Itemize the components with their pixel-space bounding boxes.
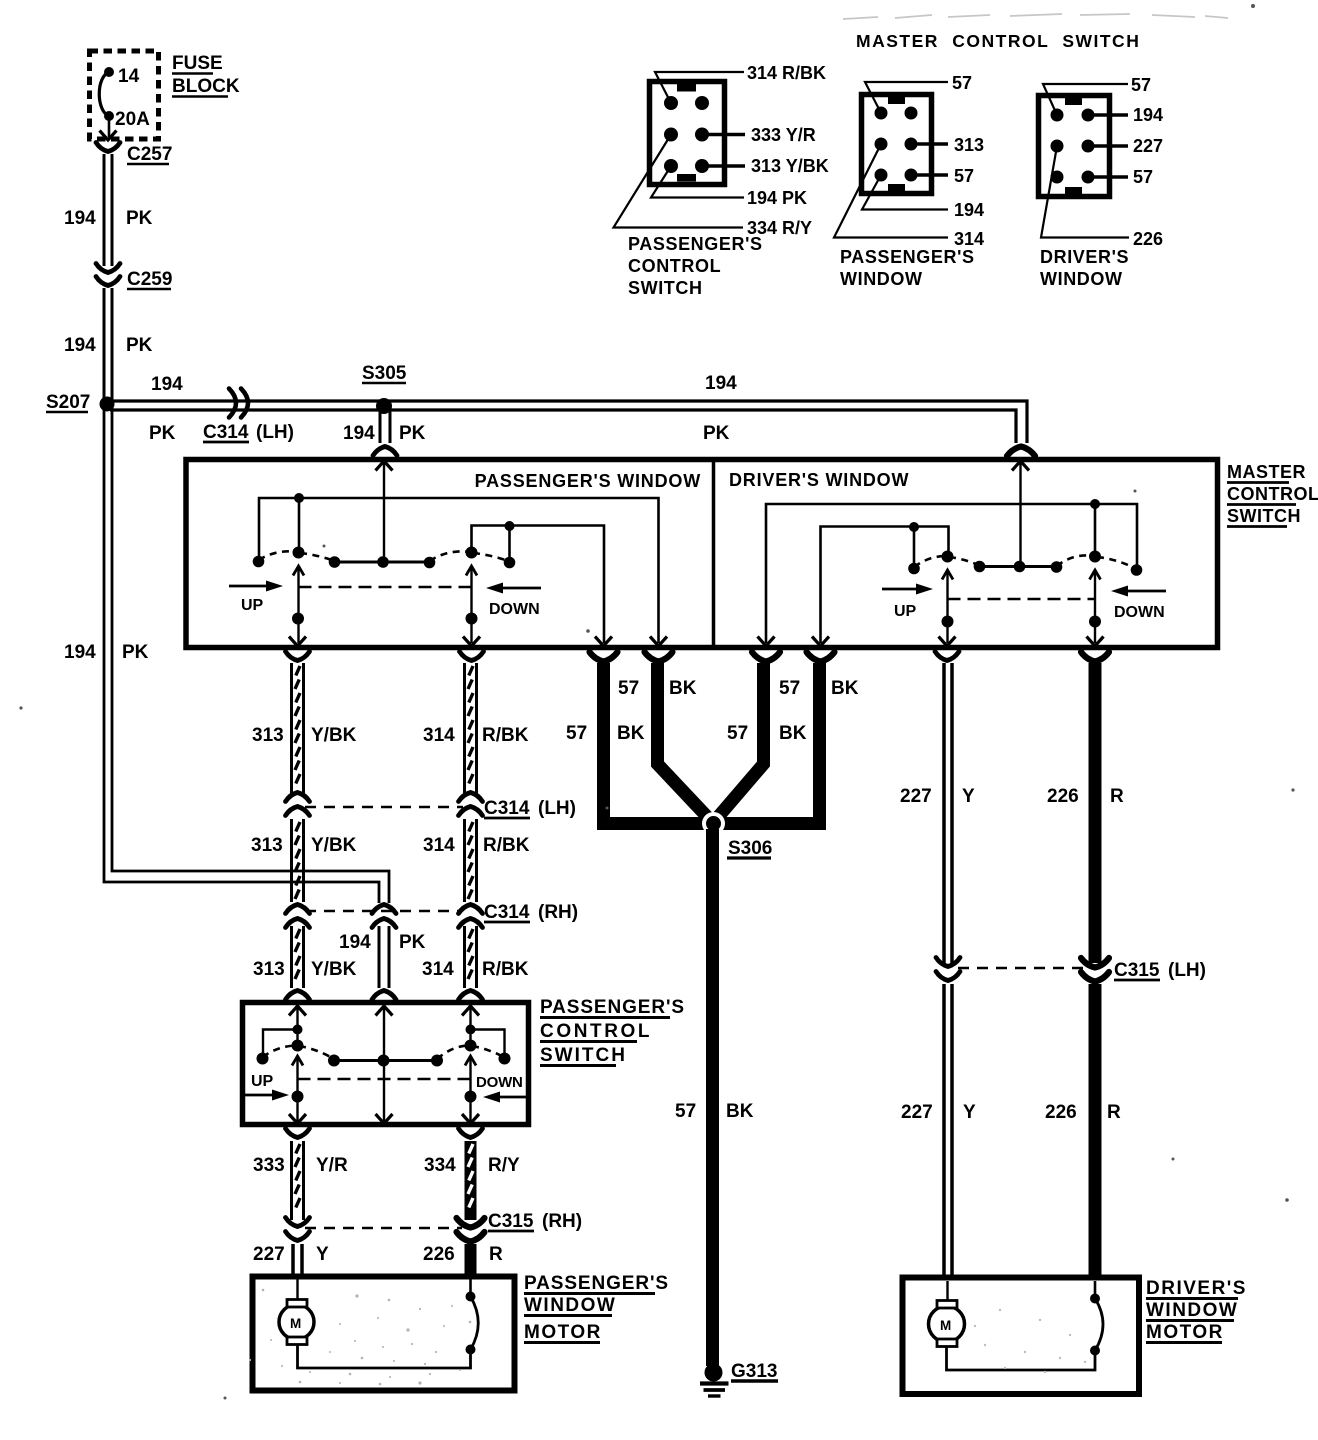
svg-text:PK: PK (122, 642, 149, 663)
svg-text:DOWN: DOWN (489, 601, 540, 618)
label C314 (RH) (484, 902, 578, 923)
motor M2 (929, 1301, 965, 1347)
label 194 PK at S305 branch (343, 423, 426, 444)
label 194 PK lower left (64, 642, 149, 663)
wire 194 PK segment to switch (379, 926, 389, 988)
label DRIVER'S WINDOW MOTOR (1146, 1278, 1247, 1343)
wire 314 R/BK segment 3 (465, 926, 477, 988)
svg-text:314 R/BK: 314 R/BK (747, 63, 826, 83)
label 194 PK above switch (339, 932, 426, 953)
svg-text:226: 226 (1047, 786, 1079, 807)
label 57 BK outer left (566, 723, 645, 744)
entry arrows inside control switch (289, 1006, 479, 1016)
svg-text:314: 314 (954, 229, 984, 249)
wire 226 R right segment 1 (1089, 663, 1102, 963)
fuse block (90, 51, 159, 139)
svg-text:PASSENGER'S: PASSENGER'S (628, 234, 763, 254)
label 227 Y left (253, 1244, 329, 1265)
wire 314 R/BK segment 1 (465, 663, 477, 795)
motor M1 feed wire (296, 1279, 298, 1300)
svg-text:M: M (940, 1318, 951, 1333)
label 333 Y/R (253, 1155, 348, 1176)
wire 57 BK thick inner right (712, 663, 764, 824)
svg-text:14: 14 (118, 66, 140, 87)
connector chevron into master switch right feed (1007, 447, 1035, 457)
svg-text:194 PK: 194 PK (747, 188, 807, 208)
connector C315 RH dashed line (305, 1227, 462, 1229)
svg-text:R/BK: R/BK (482, 725, 529, 746)
label 194 PK right run (703, 373, 737, 444)
svg-text:S305: S305 (362, 363, 407, 384)
svg-text:C257: C257 (127, 144, 172, 165)
svg-text:194: 194 (954, 200, 984, 220)
svg-text:BK: BK (669, 678, 697, 699)
leader pin 57 C mid (1092, 167, 1153, 187)
connector C259 (96, 264, 172, 291)
svg-text:226: 226 (423, 1244, 455, 1265)
passenger window motor box M1 (253, 1277, 515, 1391)
label PK below S207 run (149, 423, 176, 444)
UP actuation arrow right half (882, 584, 933, 621)
svg-text:SWITCH: SWITCH (1227, 506, 1301, 526)
connector C314 LH chevrons on 314 (459, 793, 483, 816)
leader pin 313 Y/BK (706, 156, 829, 176)
leader pin 57 B mid (915, 166, 974, 186)
up plunger control switch (292, 1056, 304, 1124)
leader pin 57 C top (1043, 75, 1151, 115)
label PASSENGER'S CONTROL SWITCH (540, 997, 685, 1066)
svg-text:PASSENGER'S: PASSENGER'S (524, 1273, 669, 1294)
svg-text:PK: PK (126, 335, 153, 356)
svg-text:PK: PK (703, 423, 730, 444)
wire 313 Y/BK segment 1 (292, 663, 304, 795)
leader pin 57 B top (865, 73, 972, 113)
center contact bar control switch (334, 1055, 443, 1067)
label 57 BK inner left (618, 678, 697, 699)
connector C314 LH inline symbol (229, 389, 248, 418)
fuse label 14 (118, 66, 140, 87)
wire 334 R/Y (465, 1141, 477, 1220)
svg-text:BK: BK (617, 723, 645, 744)
wire 333 Y/R (292, 1141, 304, 1220)
center contact bar left half (335, 556, 436, 568)
label 226 R upper (1047, 786, 1124, 807)
leader pin 194 B (862, 175, 984, 220)
leader pin 226 C (1041, 146, 1163, 249)
svg-text:194: 194 (1133, 105, 1163, 125)
caption PASSENGER'S WINDOW view (840, 247, 975, 289)
svg-text:PASSENGER'S WINDOW: PASSENGER'S WINDOW (475, 471, 701, 491)
label C314 (LH) (484, 798, 576, 819)
label row 313 Y/BK 314 R/BK third (253, 959, 529, 980)
wire feed to center contacts right half (1019, 462, 1021, 562)
label C315 (LH) (1114, 960, 1206, 981)
label C315 (RH) (488, 1211, 582, 1232)
ground G313 (700, 1361, 778, 1396)
exit chevrons below control switch (286, 1129, 483, 1138)
svg-text:R: R (1107, 1102, 1121, 1123)
fuse label 20A (115, 109, 150, 130)
wire 227 Y right segment 2 (944, 984, 952, 1276)
svg-text:194: 194 (64, 642, 96, 663)
svg-text:227: 227 (253, 1244, 285, 1265)
caption PASSENGER'S CONTROL SWITCH view (628, 234, 763, 298)
svg-text:313: 313 (252, 725, 284, 746)
svg-text:57: 57 (727, 723, 748, 744)
svg-text:WINDOW: WINDOW (1146, 1300, 1238, 1321)
svg-text:(RH): (RH) (538, 902, 578, 923)
entry chevrons above passenger control switch (286, 991, 483, 1000)
mechanical link dashed left half (299, 586, 472, 589)
FUSE BLOCK label (172, 53, 240, 97)
svg-text:226: 226 (1045, 1102, 1077, 1123)
label C314 (LH) inline (203, 422, 294, 443)
connector C315 LH dashed line (958, 967, 1086, 969)
connector C314 LH chevrons on 313 (286, 793, 310, 816)
svg-text:MASTER CONTROL SWITCH: MASTER CONTROL SWITCH (856, 31, 1140, 51)
leader pin 194 C (1092, 105, 1163, 125)
leader pin 314 B (834, 144, 984, 249)
terminal chevrons below master switch (286, 652, 1110, 662)
svg-text:BK: BK (779, 723, 807, 744)
svg-text:333: 333 (253, 1155, 285, 1176)
down plunger right half (1089, 570, 1101, 643)
svg-text:Y: Y (962, 786, 975, 807)
label DRIVER'S WINDOW (729, 470, 909, 490)
node rail1 left half (259, 493, 659, 643)
svg-text:Y: Y (316, 1244, 329, 1265)
svg-text:R/Y: R/Y (488, 1155, 520, 1176)
title MASTER CONTROL SWITCH (856, 31, 1140, 51)
wire 313 Y/BK segment 3 (292, 926, 304, 988)
arrow feed entry right half (1012, 461, 1029, 471)
mechanical link dashed control switch (298, 1078, 471, 1081)
wire 194 PK S207 to S305 to master switch (110, 401, 1027, 443)
wire 194 PK C259 to S207 (104, 288, 112, 400)
DOWN actuation arrow left half (486, 583, 541, 619)
svg-text:334: 334 (424, 1155, 456, 1176)
svg-text:194: 194 (343, 423, 375, 444)
wire 226 R left segment (465, 1244, 477, 1275)
svg-text:DOWN: DOWN (1114, 604, 1165, 621)
svg-text:20A: 20A (115, 109, 150, 130)
caption DRIVER'S WINDOW view (1040, 247, 1129, 289)
svg-text:DRIVER'S: DRIVER'S (1146, 1278, 1247, 1299)
master control switch box U1 (186, 460, 1218, 648)
label MASTER CONTROL SWITCH right side (1227, 462, 1318, 527)
svg-text:57: 57 (954, 166, 974, 186)
label 194 PK upper (64, 208, 153, 229)
svg-text:R: R (489, 1244, 503, 1265)
svg-text:M: M (290, 1316, 301, 1331)
svg-text:57: 57 (779, 678, 800, 699)
svg-text:G313: G313 (731, 1361, 777, 1382)
svg-text:BLOCK: BLOCK (172, 76, 240, 97)
svg-text:DRIVER'S: DRIVER'S (1040, 247, 1129, 267)
svg-text:SWITCH: SWITCH (540, 1045, 627, 1066)
svg-text:SWITCH: SWITCH (628, 278, 703, 298)
svg-text:313 Y/BK: 313 Y/BK (751, 156, 829, 176)
splice S306 (702, 812, 772, 859)
up contact set right half (908, 551, 979, 575)
splice S305 (362, 363, 407, 414)
wire 194 PK fuse to C259 (104, 154, 112, 266)
svg-text:(LH): (LH) (538, 798, 576, 819)
svg-text:194: 194 (64, 208, 96, 229)
svg-text:S306: S306 (728, 838, 772, 859)
svg-text:Y/BK: Y/BK (311, 835, 357, 856)
down contact set left half (430, 547, 516, 569)
svg-text:MOTOR: MOTOR (524, 1322, 602, 1343)
label 334 R/Y (424, 1155, 520, 1176)
svg-text:227: 227 (901, 1102, 933, 1123)
down plunger left half (466, 566, 478, 643)
wire 57 BK thick inner left (658, 663, 715, 824)
connector view master passenger window shell (862, 95, 932, 194)
arrow out of fuse block (100, 131, 117, 141)
svg-text:R/BK: R/BK (483, 835, 530, 856)
down plunger control switch (465, 1056, 477, 1124)
wire 194 PK S207 down and right to C314 RH (104, 408, 389, 903)
svg-text:BK: BK (726, 1101, 754, 1122)
label row 313 Y/BK 314 R/BK first (252, 725, 529, 746)
connector C315 RH chevrons on 333 (286, 1218, 310, 1241)
svg-text:CONTROL: CONTROL (628, 256, 721, 276)
svg-text:Y: Y (963, 1102, 976, 1123)
UP actuation arrow control switch (242, 1073, 289, 1101)
motor M1 (279, 1300, 314, 1345)
svg-text:314: 314 (423, 725, 455, 746)
label 227 Y upper (900, 786, 975, 807)
svg-text:313: 313 (251, 835, 283, 856)
DOWN actuation arrow control switch (476, 1074, 528, 1103)
wire 57 BK to ground (706, 829, 719, 1366)
passenger control switch box S2 (243, 1003, 529, 1125)
svg-text:FUSE: FUSE (172, 53, 223, 74)
wire feed to center contacts left half (383, 462, 385, 558)
svg-text:194: 194 (339, 932, 371, 953)
svg-text:Y/R: Y/R (316, 1155, 348, 1176)
wire 314 R/BK segment 2 (465, 819, 477, 902)
svg-text:PK: PK (126, 208, 153, 229)
svg-text:226: 226 (1133, 229, 1163, 249)
label 57 BK inner right (779, 678, 859, 699)
label 227 Y lower (901, 1102, 976, 1123)
svg-text:227: 227 (900, 786, 932, 807)
svg-text:PK: PK (399, 932, 426, 953)
svg-text:BK: BK (831, 678, 859, 699)
svg-text:57: 57 (1133, 167, 1153, 187)
node rail2 right half (821, 522, 949, 643)
center contact bar right half (974, 561, 1063, 573)
connector view C pins (1051, 109, 1095, 184)
connector C314 LH dashed line (305, 806, 463, 808)
svg-text:DRIVER'S WINDOW: DRIVER'S WINDOW (729, 470, 909, 490)
svg-text:57: 57 (566, 723, 587, 744)
label row 313 Y/BK 314 R/BK second (251, 835, 530, 856)
fuse 14 20A element (99, 67, 114, 137)
svg-text:CONTROL: CONTROL (1227, 484, 1318, 504)
node rail2 left half (472, 521, 605, 643)
svg-text:PK: PK (399, 423, 426, 444)
svg-text:DOWN: DOWN (476, 1074, 523, 1091)
connector C314 RH chevrons on 313 (286, 905, 310, 928)
connector view B pins (875, 107, 918, 182)
connector C257 (96, 143, 172, 166)
scan smudge above title (843, 14, 1228, 19)
leader pin 334 R/Y (614, 135, 813, 239)
wire 227 Y left segment (293, 1244, 302, 1275)
svg-text:194: 194 (64, 335, 96, 356)
arrow feed entry left half (376, 461, 393, 471)
leader pin 333 Y/R (706, 125, 816, 145)
label 194 PK mid (64, 335, 153, 356)
mechanical link dashed right half (948, 598, 1096, 601)
connector C315 LH chevrons on 226 (1081, 958, 1109, 982)
svg-text:PASSENGER'S: PASSENGER'S (540, 997, 685, 1018)
svg-text:MASTER: MASTER (1227, 462, 1306, 482)
wire 57 BK thick outer right (713, 663, 820, 824)
svg-text:UP: UP (251, 1073, 274, 1090)
up contact set control switch (257, 1040, 341, 1067)
svg-text:PASSENGER'S: PASSENGER'S (840, 247, 975, 267)
leader pin 313 B (915, 135, 984, 155)
connector view passenger control switch shell (650, 82, 725, 185)
svg-text:333 Y/R: 333 Y/R (751, 125, 816, 145)
down contact set right half (1057, 551, 1143, 576)
svg-text:C315: C315 (488, 1211, 534, 1232)
svg-text:57: 57 (1131, 75, 1151, 95)
svg-text:PK: PK (149, 423, 176, 444)
up feed branch control switch (263, 1006, 303, 1055)
svg-text:Y/BK: Y/BK (311, 725, 357, 746)
center feed wire control switch (383, 1006, 385, 1124)
svg-text:C314: C314 (203, 422, 249, 443)
svg-text:314: 314 (423, 835, 455, 856)
svg-text:(LH): (LH) (256, 422, 294, 443)
scan noise speckles (249, 1289, 471, 1386)
svg-text:227: 227 (1133, 136, 1163, 156)
connector C315 LH chevrons on 227 (936, 958, 960, 981)
svg-text:WINDOW: WINDOW (840, 269, 923, 289)
wire 227 Y right segment 1 (944, 663, 952, 963)
connector C315 RH chevrons on 334 (457, 1218, 485, 1242)
wire 226 R right segment 2 (1089, 984, 1102, 1276)
svg-text:57: 57 (952, 73, 972, 93)
up plunger right half (942, 570, 954, 643)
svg-text:313: 313 (954, 135, 984, 155)
connector C314 RH dashed line (305, 910, 462, 912)
up plunger left half (292, 566, 304, 643)
splice S207 (46, 392, 115, 413)
svg-text:WINDOW: WINDOW (1040, 269, 1123, 289)
svg-text:MOTOR: MOTOR (1146, 1322, 1224, 1343)
label 194 above S207 run (151, 374, 183, 395)
svg-text:313: 313 (253, 959, 285, 980)
svg-text:UP: UP (241, 597, 264, 614)
label 57 BK outer right (727, 723, 807, 744)
svg-text:194: 194 (705, 373, 737, 394)
label 226 R left (423, 1244, 503, 1265)
DOWN actuation arrow right half (1111, 586, 1166, 622)
svg-text:UP: UP (894, 603, 917, 620)
leader pin 194 PK (651, 166, 807, 208)
exit arrows bottom control switch (289, 1114, 479, 1124)
label PASSENGER'S WINDOW (475, 471, 701, 491)
svg-text:C315: C315 (1114, 960, 1160, 981)
svg-text:C314: C314 (484, 902, 530, 923)
svg-text:Y/BK: Y/BK (311, 959, 357, 980)
terminal arrows right half bottom (758, 637, 1104, 647)
wire 57 BK thick outer left (604, 663, 714, 824)
motor M1 brush arc (298, 1279, 479, 1368)
connector chevron into master switch left feed (373, 447, 397, 456)
svg-text:C314: C314 (484, 798, 530, 819)
master switch divider (712, 462, 716, 645)
terminal arrows left half bottom (289, 637, 667, 647)
svg-text:S207: S207 (46, 392, 90, 413)
up contact set left half (253, 547, 341, 568)
motor M2 feed wire (946, 1281, 948, 1301)
svg-text:314: 314 (422, 959, 454, 980)
svg-text:R: R (1110, 786, 1124, 807)
connector view master driver window shell (1039, 96, 1110, 197)
svg-text:194: 194 (151, 374, 183, 395)
svg-text:(RH): (RH) (542, 1211, 582, 1232)
driver window motor box M2 (903, 1278, 1140, 1395)
label 57 BK lower (675, 1101, 754, 1122)
leader pin 227 C (1092, 136, 1163, 156)
svg-text:WINDOW: WINDOW (524, 1295, 616, 1316)
connector view A pins (664, 96, 709, 173)
connector C314 RH chevrons on 194 (372, 905, 396, 928)
leader pin 314 R/BK (655, 63, 826, 103)
UP actuation arrow left half (229, 581, 283, 615)
connector C314 RH chevrons on 314 (459, 905, 483, 928)
label 226 R lower (1045, 1102, 1121, 1123)
label PASSENGER'S WINDOW MOTOR (524, 1273, 669, 1343)
down feed branch control switch (466, 1006, 505, 1055)
svg-text:57: 57 (675, 1101, 696, 1122)
wire 194 PK S305 branch down to master switch (380, 408, 390, 443)
svg-text:CONTROL: CONTROL (540, 1021, 652, 1042)
svg-text:R/BK: R/BK (482, 959, 529, 980)
node rail1 right half (766, 499, 1137, 643)
wire 313 Y/BK segment 2 (292, 819, 304, 902)
motor M2 brush arc (947, 1281, 1104, 1370)
svg-text:C259: C259 (127, 269, 172, 290)
svg-text:57: 57 (618, 678, 639, 699)
down contact set control switch (437, 1040, 511, 1065)
svg-text:(LH): (LH) (1168, 960, 1206, 981)
